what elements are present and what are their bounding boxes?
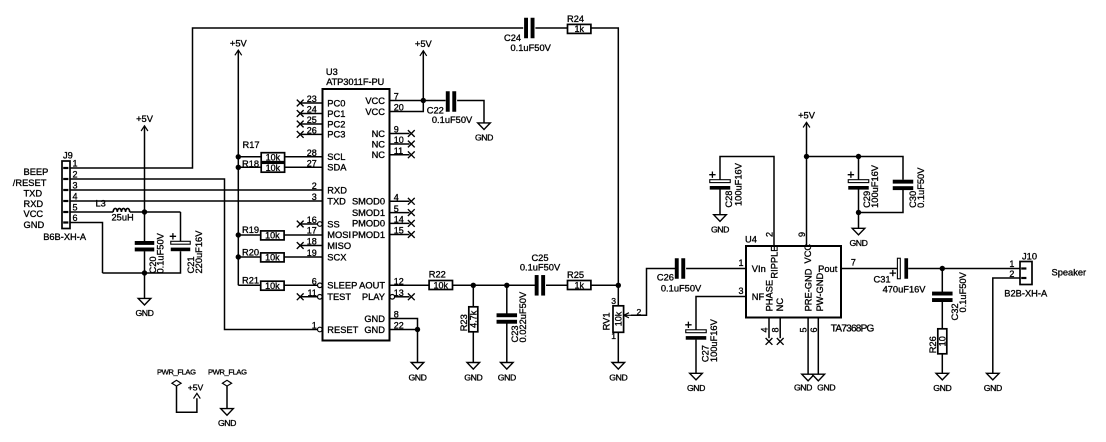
- svg-text:PWR_FLAG: PWR_FLAG: [208, 367, 247, 376]
- svg-text:1: 1: [73, 159, 78, 169]
- svg-text:Speaker: Speaker: [1052, 268, 1087, 278]
- wire down to C23: [506, 285, 508, 313]
- svg-text:PLAY: PLAY: [362, 292, 385, 302]
- svg-text:4.7k: 4.7k: [469, 310, 479, 328]
- svg-text:VIn: VIn: [752, 264, 766, 274]
- svg-text:SLEEP: SLEEP: [327, 281, 357, 291]
- wire R17 to U3 SCL: [285, 156, 323, 158]
- wire +5V riser down to C20: [144, 212, 146, 241]
- svg-text:R18: R18: [242, 159, 259, 169]
- wire U4 PHASE stub: [768, 318, 770, 339]
- svg-text:4: 4: [394, 193, 399, 203]
- svg-text:6: 6: [809, 327, 819, 332]
- U3 pin 13 PLAY: [362, 288, 410, 302]
- connector J10 outline: [1020, 262, 1032, 285]
- inductor L3: [113, 208, 129, 212]
- ground under R23: [464, 363, 482, 383]
- capacitor C25 plates: [535, 275, 545, 296]
- capacitor C21 (polarized) plates: [170, 233, 191, 251]
- svg-text:GND: GND: [933, 383, 951, 393]
- ground under C28: [711, 215, 729, 235]
- svg-text:J9: J9: [63, 151, 73, 161]
- svg-text:10k: 10k: [265, 231, 280, 241]
- ground under C29/C30: [849, 228, 867, 248]
- capacitor C24: [524, 18, 534, 39]
- RV1 wiper arrow: [624, 313, 632, 318]
- wire L3 to C21 branch: [130, 211, 181, 213]
- svg-text:RESET: RESET: [327, 325, 358, 335]
- svg-text:PC3: PC3: [327, 130, 345, 140]
- svg-text:28: 28: [307, 148, 317, 158]
- wire R20 to U3 SCX: [284, 256, 322, 258]
- svg-text:4: 4: [759, 327, 769, 332]
- svg-text:SCX: SCX: [327, 252, 346, 262]
- svg-text:R25: R25: [567, 270, 584, 280]
- svg-text:PC1: PC1: [327, 109, 345, 119]
- svg-text:PHASE: PHASE: [764, 280, 774, 312]
- wire C25 to R25: [546, 284, 568, 286]
- svg-text:9: 9: [797, 232, 807, 237]
- svg-text:5: 5: [798, 327, 808, 332]
- no-connect X on U3 pin 24: [297, 110, 304, 117]
- svg-text:1k: 1k: [574, 24, 584, 34]
- svg-text:GND: GND: [687, 383, 705, 393]
- svg-text:GND: GND: [218, 418, 236, 428]
- svg-text:27: 27: [307, 159, 317, 169]
- svg-text:3: 3: [73, 181, 78, 191]
- U3 pin 17 MOSI: [307, 226, 351, 240]
- wire C26 to U4 VIn: [686, 268, 746, 270]
- svg-text:26: 26: [307, 126, 317, 136]
- wire U3 VCC7 to C22: [390, 100, 446, 102]
- wire J9 pin5 to L3: [70, 211, 113, 213]
- ground under PWR_FLAG: [218, 409, 236, 428]
- wire U4 PRE-GND stub: [807, 318, 809, 375]
- capacitor C30 plates: [893, 180, 914, 190]
- ground under R26: [933, 373, 951, 393]
- svg-text:PMOD1: PMOD1: [352, 230, 385, 240]
- ground under C20/C21: [135, 298, 153, 318]
- svg-text:470uF16V: 470uF16V: [883, 285, 927, 295]
- wire C27 to ground: [695, 340, 697, 374]
- svg-text:GND: GND: [849, 238, 867, 248]
- svg-text:11: 11: [394, 146, 403, 156]
- svg-text:+5V: +5V: [798, 111, 816, 121]
- capacitor C20 plates: [135, 241, 155, 251]
- svg-text:SDA: SDA: [327, 163, 347, 173]
- svg-text:0.1uF50V: 0.1uF50V: [520, 263, 561, 273]
- wire rail to R17: [238, 156, 261, 158]
- wire TXD J9 pin3 to U3 RXD: [70, 189, 323, 191]
- svg-text:VCC: VCC: [365, 107, 385, 117]
- resistor R24 1k: [567, 14, 591, 34]
- wire U4 NF to C27: [696, 297, 746, 330]
- wire C29 bottom to gnd node: [858, 190, 860, 229]
- svg-text:0.1uF50V: 0.1uF50V: [916, 167, 926, 208]
- svg-text:R19: R19: [242, 225, 259, 235]
- power flag PWR_FLAG +5V: [157, 367, 197, 412]
- svg-text:GND: GND: [498, 372, 516, 382]
- capacitor C28 (polarized) plates: [709, 172, 730, 190]
- svg-text:GND: GND: [464, 372, 482, 382]
- svg-text:10k: 10k: [265, 281, 280, 291]
- svg-text:24: 24: [307, 105, 317, 115]
- svg-text:1: 1: [738, 258, 743, 268]
- junction C29 top: [856, 154, 861, 159]
- svg-text:MISO: MISO: [327, 241, 351, 251]
- no-connect X on U3 pin 5: [408, 209, 415, 216]
- wire down to C32: [941, 269, 943, 293]
- svg-text:14: 14: [394, 215, 404, 225]
- svg-text:13: 13: [394, 288, 404, 298]
- svg-text:3: 3: [738, 286, 743, 296]
- svg-text:VCC: VCC: [365, 96, 385, 106]
- svg-text:GND: GND: [711, 225, 729, 235]
- U3 pin 1 RESET: [312, 321, 359, 335]
- capacitor C32 plates: [932, 292, 953, 302]
- svg-text:PC0: PC0: [327, 98, 345, 108]
- svg-text:9: 9: [394, 125, 399, 135]
- junction VCC7 node: [421, 98, 426, 103]
- svg-text:2: 2: [312, 181, 317, 191]
- wire U4 NC stub: [779, 318, 781, 339]
- no-connect X on U3 pin 11: [297, 293, 304, 300]
- capacitor C29 (polarized) plates: [848, 172, 869, 190]
- U3 pin 26 PC3: [301, 126, 346, 140]
- U3 pin 24 PC1: [301, 105, 346, 119]
- svg-text:AOUT: AOUT: [359, 281, 385, 291]
- svg-text:GND: GND: [817, 383, 835, 393]
- potentiometer RV1 10k body: [613, 306, 624, 333]
- junction rail R18: [236, 165, 241, 170]
- no-connect X on U3 pin 4: [408, 198, 415, 205]
- ground under U3: [408, 363, 426, 383]
- svg-text:C31: C31: [874, 275, 891, 285]
- resistor R20 10k: [242, 247, 284, 262]
- junction C32 node: [940, 266, 945, 271]
- capacitor C23 plates: [497, 313, 518, 323]
- svg-text:R24: R24: [567, 14, 584, 24]
- svg-text:C26: C26: [657, 272, 674, 282]
- svg-text:PMOD0: PMOD0: [352, 219, 385, 229]
- svg-text:Pout: Pout: [818, 264, 838, 274]
- svg-text:10k: 10k: [266, 153, 281, 163]
- wire U3 VCC20 up to VCC7 node: [390, 101, 424, 112]
- no-connect X on U3 pin 10: [408, 141, 415, 148]
- power +5V above R17 rail: [230, 38, 248, 285]
- power +5V above U4: [798, 111, 816, 247]
- svg-text:R22: R22: [429, 269, 446, 279]
- svg-text:R26: R26: [928, 336, 938, 353]
- U3 pin 23 PC0: [301, 94, 346, 108]
- wire down to R23: [472, 285, 474, 307]
- wire C30 bottom to gnd node: [859, 190, 904, 213]
- wire C21 bottom to ground rail: [103, 251, 181, 273]
- svg-text:SMOD1: SMOD1: [352, 208, 385, 218]
- ground under C23: [498, 363, 516, 383]
- svg-text:8: 8: [771, 327, 781, 332]
- svg-text:100uF16V: 100uF16V: [870, 164, 880, 208]
- ground under RV1: [609, 363, 627, 383]
- no-connect X on U3 pin 23: [297, 100, 304, 107]
- connector J9 outline: [62, 161, 70, 229]
- U3 pin 10 NC: [372, 135, 410, 149]
- ground under C27: [687, 373, 705, 393]
- resistor R22 10k: [429, 269, 453, 290]
- svg-text:23: 23: [307, 94, 317, 104]
- resistor R25 1k: [567, 270, 591, 290]
- resistor R21 10k: [242, 276, 284, 291]
- connector J9 pin contacts: [63, 167, 68, 224]
- svg-text:NC: NC: [372, 139, 386, 149]
- junction C23 node: [504, 283, 509, 288]
- no-connect X on U3 pin 11: [408, 151, 415, 158]
- svg-text:3: 3: [312, 192, 317, 202]
- svg-text:+5V: +5V: [230, 38, 248, 48]
- svg-text:SMOD0: SMOD0: [352, 197, 385, 207]
- svg-text:220uF16V: 220uF16V: [194, 230, 204, 274]
- wire U3 AOUT to R22: [390, 284, 430, 286]
- svg-text:GND: GND: [609, 372, 627, 382]
- svg-text:25: 25: [307, 115, 317, 125]
- junction rail R20: [236, 254, 241, 259]
- svg-text:TXD: TXD: [327, 196, 346, 206]
- U3 pin 20 VCC: [365, 103, 403, 117]
- svg-text:C22: C22: [427, 105, 444, 115]
- no-connect X on U3 pin 15: [408, 231, 415, 238]
- svg-text:10k: 10k: [265, 253, 280, 263]
- svg-text:15: 15: [394, 226, 404, 236]
- no-connect X on U3 pin 18: [297, 242, 304, 249]
- resistor R17 10k: [243, 140, 285, 162]
- power +5V above C20: [136, 114, 154, 212]
- svg-text:PC2: PC2: [327, 119, 345, 129]
- wire R22 to C25: [453, 284, 536, 286]
- wire C31 to J10: [908, 268, 1020, 270]
- svg-text:10k: 10k: [266, 163, 281, 173]
- svg-text:17: 17: [307, 226, 317, 236]
- wire RV1 to ground: [617, 332, 619, 362]
- svg-text:0.1uF50V: 0.1uF50V: [661, 284, 702, 294]
- svg-text:5: 5: [394, 204, 399, 214]
- wire R23 to ground: [472, 332, 474, 363]
- svg-text:NF: NF: [752, 292, 765, 302]
- wire C23 to ground: [506, 323, 508, 362]
- U3 pin 6 SLEEP: [312, 277, 358, 291]
- svg-text:1k: 1k: [574, 280, 584, 290]
- U3 pin 22 GND: [364, 321, 403, 335]
- junction +5V rail at VCC9: [804, 154, 809, 159]
- svg-text:16: 16: [307, 215, 317, 225]
- capacitor C27 (polarized) plates: [685, 322, 706, 340]
- wire R18 to U3 SDA: [285, 166, 323, 168]
- svg-text:TA7368PG: TA7368PG: [831, 324, 875, 335]
- no-connect X on U3 pin 14: [408, 220, 415, 227]
- svg-text:L3: L3: [96, 199, 106, 209]
- svg-text:6: 6: [73, 213, 78, 223]
- wire C20 bottom to ground rail: [144, 251, 146, 273]
- U3 pin 18 MISO: [301, 237, 352, 251]
- U3 pin 14 PMOD0: [352, 215, 410, 229]
- junction GND8/GND22: [415, 327, 420, 332]
- U3 pin 9 NC: [372, 125, 410, 139]
- svg-text:MOSI: MOSI: [327, 230, 351, 240]
- junction C29/C30 ground node: [856, 210, 861, 215]
- svg-text:ATP3011F-PU: ATP3011F-PU: [326, 77, 384, 87]
- svg-text:GND: GND: [364, 314, 385, 324]
- svg-text:NC: NC: [372, 129, 386, 139]
- wire rail to R21: [238, 284, 261, 286]
- svg-text:10: 10: [394, 135, 404, 145]
- no-connect X on U3 pin 25: [297, 121, 304, 128]
- svg-text:1: 1: [611, 331, 616, 341]
- svg-text:GND: GND: [364, 325, 385, 335]
- svg-text:+5V: +5V: [188, 382, 204, 392]
- junction R23 node: [471, 283, 476, 288]
- no-connect X on U4 pin 4 PHASE: [766, 338, 773, 345]
- resistor R18 10k: [242, 159, 285, 173]
- svg-text:0.1uF50V: 0.1uF50V: [958, 271, 968, 312]
- wire RXD J9 pin4 to U3 TXD: [70, 200, 323, 202]
- wire U3 GND8: [390, 319, 418, 363]
- ground under U4 PRE-GND: [802, 374, 815, 381]
- svg-text:2: 2: [73, 170, 78, 180]
- svg-text:C24: C24: [504, 33, 521, 43]
- svg-text:PW-GND: PW-GND: [815, 273, 825, 312]
- svg-text:0.1uF50V: 0.1uF50V: [432, 115, 473, 125]
- wire rail to R19: [238, 234, 261, 236]
- connector J10 pin contacts: [1021, 267, 1026, 279]
- svg-text:R21: R21: [242, 276, 259, 286]
- svg-text:+5V: +5V: [136, 114, 154, 124]
- svg-text:C25: C25: [531, 253, 548, 263]
- wire node down to RV1: [617, 285, 619, 306]
- amplifier U4 TA7368PG body: [746, 246, 841, 318]
- wire R26 to ground: [941, 354, 943, 374]
- U3 pin 5 SMOD1: [352, 204, 410, 218]
- resistor R26 10: [928, 329, 948, 354]
- svg-text:11: 11: [307, 288, 316, 298]
- wire C24 to R24: [535, 27, 568, 29]
- svg-text:GND: GND: [24, 220, 45, 230]
- wire C21 top lead: [180, 212, 182, 241]
- svg-text:10: 10: [938, 336, 948, 346]
- svg-text:0.022uF50V: 0.022uF50V: [518, 291, 528, 342]
- svg-text:GND: GND: [408, 372, 426, 382]
- capacitor C31 (polarized) plates: [890, 258, 909, 279]
- wire ground stem under C20: [144, 273, 146, 298]
- junction VCC at +5V riser: [142, 209, 147, 214]
- no-connect X on U3 pin 16: [297, 221, 304, 228]
- svg-text:GND: GND: [475, 133, 493, 143]
- svg-text:5: 5: [73, 203, 78, 213]
- wire C22 to ground: [457, 101, 484, 123]
- svg-text:10k: 10k: [434, 280, 449, 290]
- wire C28 to ground: [719, 190, 721, 215]
- svg-text:RXD: RXD: [327, 185, 347, 195]
- svg-text:J10: J10: [1022, 251, 1037, 261]
- svg-text:7: 7: [851, 257, 856, 267]
- svg-text:3: 3: [611, 296, 616, 306]
- svg-text:VCC: VCC: [803, 244, 813, 264]
- junction RV1 top node: [616, 283, 621, 288]
- U3 pin 2 RXD: [312, 181, 347, 195]
- ground under J10 pin2: [984, 373, 1002, 393]
- svg-text:0.1uF50V: 0.1uF50V: [511, 43, 552, 53]
- no-connect X on U3 pin 9: [408, 130, 415, 137]
- svg-text:U3: U3: [326, 67, 338, 77]
- svg-text:0.1uF50V: 0.1uF50V: [155, 232, 165, 273]
- resistor R23 4.7k: [459, 307, 479, 332]
- wire U4 Pout to C31: [841, 268, 897, 270]
- U3 pin 27 SDA: [307, 159, 347, 173]
- svg-text:RV1: RV1: [602, 312, 612, 330]
- svg-text:VCC: VCC: [24, 209, 44, 219]
- svg-text:SS: SS: [327, 219, 339, 229]
- svg-text:U4: U4: [745, 235, 757, 245]
- wire C29 top lead: [858, 157, 860, 180]
- wire /RESET from J9 pin2 to U3 RESET: [70, 179, 317, 330]
- resistor R19 10k: [242, 225, 284, 241]
- svg-text:1: 1: [1009, 259, 1014, 269]
- svg-text:1: 1: [312, 321, 317, 331]
- U3 pin 3 TXD: [312, 192, 346, 206]
- svg-text:100uF16V: 100uF16V: [709, 318, 719, 362]
- svg-text:R20: R20: [242, 247, 259, 257]
- U3 pin 11 NC: [372, 146, 410, 160]
- U3 pin 28 SCL: [307, 148, 346, 162]
- svg-text:PWR_FLAG: PWR_FLAG: [157, 367, 196, 376]
- svg-text:R17: R17: [243, 140, 260, 150]
- U3 pin 8 GND: [364, 310, 398, 324]
- no-connect X on U4 pin 8 NC: [777, 338, 784, 345]
- svg-text:RIPPLE: RIPPLE: [770, 246, 780, 279]
- power +5V at PWR_FLAG: [188, 382, 204, 398]
- wire rail to R20: [238, 256, 261, 258]
- wire rail to R18: [238, 166, 261, 168]
- U3 pin 12 AOUT: [359, 277, 404, 291]
- svg-text:/RESET: /RESET: [13, 178, 47, 188]
- power flag PWR_FLAG GND: [208, 367, 247, 408]
- wire U4 PW-GND stub: [817, 318, 819, 375]
- svg-text:B2B-XH-A: B2B-XH-A: [1004, 288, 1048, 298]
- wire BEEP from J9 pin1 up and across top: [70, 28, 523, 168]
- svg-text:18: 18: [307, 237, 317, 247]
- svg-text:GND: GND: [984, 383, 1002, 393]
- no-connect X on U3 pin 26: [297, 131, 304, 138]
- U3 pin 15 PMOD1: [352, 226, 410, 240]
- svg-text:B6B-XH-A: B6B-XH-A: [43, 232, 87, 242]
- capacitor C22 plates: [446, 91, 456, 112]
- wire R19 to U3 MOSI: [284, 234, 322, 236]
- svg-text:NC: NC: [775, 298, 785, 312]
- wire +5V rail to C29/C30: [807, 157, 904, 180]
- svg-text:PRE-GND: PRE-GND: [804, 268, 814, 311]
- junction rail R19: [236, 232, 241, 237]
- U3 pin 25 PC2: [301, 115, 346, 129]
- svg-text:GND: GND: [135, 308, 153, 318]
- U3 pin 7 VCC: [365, 92, 398, 106]
- svg-text:100uF16V: 100uF16V: [733, 162, 743, 206]
- U3 pin 19 SCX: [307, 248, 347, 262]
- ground under U4 PW-GND: [812, 374, 825, 381]
- svg-text:R23: R23: [459, 314, 469, 331]
- wire J10 pin2 to ground: [993, 278, 1020, 373]
- wire J9 pin6 to ground rail: [70, 223, 103, 274]
- U3 pin 11 TEST: [301, 288, 352, 302]
- svg-text:6: 6: [312, 277, 317, 287]
- wire C32 to R26: [941, 302, 943, 329]
